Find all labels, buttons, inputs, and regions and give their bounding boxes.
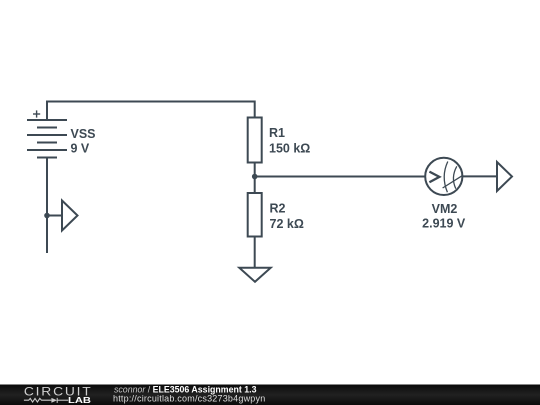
svg-text:R1: R1 — [269, 126, 285, 140]
svg-text:LAB: LAB — [68, 396, 91, 405]
svg-text:VM2: VM2 — [432, 202, 458, 216]
svg-text:72 kΩ: 72 kΩ — [270, 217, 304, 231]
svg-text:http://circuitlab.com/cs3273b4: http://circuitlab.com/cs3273b4gwpyn — [113, 394, 265, 404]
svg-text:9 V: 9 V — [71, 142, 90, 156]
svg-text:R2: R2 — [270, 202, 286, 216]
svg-text:150 kΩ: 150 kΩ — [269, 141, 310, 155]
svg-text:VSS: VSS — [71, 127, 96, 141]
svg-text:2.919 V: 2.919 V — [422, 217, 466, 231]
